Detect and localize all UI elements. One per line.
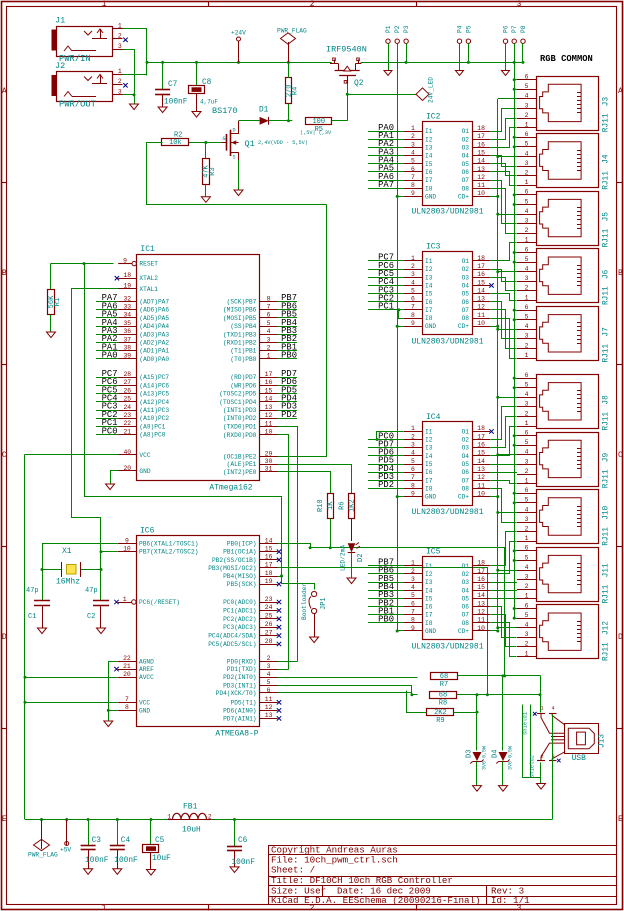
svg-text:6: 6: [525, 246, 529, 253]
svg-text:(AD3)PA3: (AD3)PA3: [139, 331, 169, 338]
svg-text:I3: I3: [425, 274, 433, 281]
svg-text:I5: I5: [425, 291, 433, 298]
svg-text:68: 68: [439, 692, 447, 700]
svg-text:19: 19: [265, 578, 273, 585]
svg-text:A: A: [2, 87, 7, 96]
svg-text:(TXD0)PD1: (TXD0)PD1: [223, 424, 257, 431]
svg-text:D4: D4: [492, 750, 500, 758]
svg-text:PWR_FLAG: PWR_FLAG: [28, 852, 58, 859]
svg-text:R5: R5: [315, 126, 323, 134]
svg-text:23: 23: [123, 412, 131, 419]
svg-text:5: 5: [267, 320, 271, 327]
svg-text:RJ11: RJ11: [603, 584, 611, 603]
svg-text:1: 1: [525, 593, 529, 600]
svg-text:14: 14: [477, 592, 485, 599]
svg-text:9: 9: [125, 537, 129, 544]
svg-text:PB1(OC1A): PB1(OC1A): [223, 549, 256, 556]
svg-text:9: 9: [123, 257, 127, 264]
svg-text:1: 1: [102, 0, 107, 9]
svg-text:1: 1: [411, 560, 415, 567]
svg-text:PC5(ADC5/SCL): PC5(ADC5/SCL): [208, 641, 256, 648]
svg-text:1: 1: [525, 650, 529, 657]
svg-text:RJ11: RJ11: [603, 286, 611, 305]
svg-text:2: 2: [411, 263, 415, 270]
svg-text:3: 3: [525, 574, 529, 581]
svg-text:4: 4: [525, 506, 529, 513]
svg-text:4: 4: [267, 328, 271, 335]
svg-text:5: 5: [525, 382, 529, 389]
svg-text:24: 24: [265, 604, 273, 611]
svg-text:D1: D1: [259, 107, 269, 115]
svg-text:11: 11: [265, 420, 273, 427]
svg-text:(RD)PD7: (RD)PD7: [230, 374, 256, 381]
svg-text:10uF: 10uF: [152, 855, 171, 863]
svg-text:15: 15: [477, 584, 485, 591]
svg-text:18: 18: [123, 272, 131, 279]
svg-text:P2: P2: [394, 25, 401, 33]
svg-text:6: 6: [411, 166, 415, 173]
svg-text:USB: USB: [572, 754, 587, 763]
svg-text:5: 5: [525, 497, 529, 504]
svg-text:PWR_FLAG: PWR_FLAG: [277, 28, 307, 35]
svg-text:O1: O1: [462, 428, 470, 435]
svg-text:O7: O7: [462, 612, 470, 619]
svg-text:I8: I8: [425, 620, 433, 627]
svg-text:100nF: 100nF: [114, 857, 138, 865]
svg-text:I6: I6: [425, 469, 433, 476]
svg-text:PA0: PA0: [102, 351, 118, 361]
svg-text:8: 8: [411, 182, 415, 189]
svg-text:PB3(MOSI/OC2): PB3(MOSI/OC2): [208, 565, 256, 572]
svg-text:P6: P6: [503, 25, 510, 33]
svg-text:2: 2: [310, 0, 315, 9]
svg-text:7: 7: [125, 696, 129, 703]
svg-text:C: C: [2, 451, 7, 460]
svg-text:8: 8: [411, 617, 415, 624]
svg-text:O5: O5: [462, 595, 470, 602]
svg-text:J13: J13: [599, 734, 607, 748]
svg-text:RGB COMMON: RGB COMMON: [540, 54, 593, 64]
svg-text:1: 1: [102, 904, 107, 911]
svg-text:I8: I8: [425, 185, 433, 192]
svg-text:R9: R9: [436, 717, 444, 725]
svg-text:IRF9540N: IRF9540N: [326, 45, 367, 55]
svg-text:7: 7: [411, 174, 415, 181]
svg-text:9: 9: [411, 490, 415, 497]
svg-text:6: 6: [525, 131, 529, 138]
svg-text:16: 16: [265, 554, 273, 561]
svg-text:(A12)PC4: (A12)PC4: [139, 399, 169, 406]
svg-text:J12: J12: [603, 621, 611, 635]
svg-text:(TOSC2)PD5: (TOSC2)PD5: [219, 391, 256, 398]
svg-text:PC6(/RESET): PC6(/RESET): [139, 599, 180, 606]
svg-text:(RXD0)PD0: (RXD0)PD0: [223, 432, 257, 439]
svg-text:100: 100: [312, 118, 325, 126]
svg-text:11: 11: [477, 182, 485, 189]
svg-text:1: 1: [525, 420, 529, 427]
svg-text:ULN2803/UDN2981: ULN2803/UDN2981: [411, 338, 483, 347]
svg-text:PC4(ADC4/SDA): PC4(ADC4/SDA): [208, 633, 256, 640]
svg-text:Title: DF10CH 10ch RGB Contro: Title: DF10CH 10ch RGB Controller: [271, 875, 453, 886]
svg-text:2: 2: [267, 655, 271, 662]
svg-text:R3: R3: [209, 167, 217, 175]
svg-text:O6: O6: [462, 299, 470, 306]
svg-text:(AD0)PA0: (AD0)PA0: [139, 356, 169, 363]
svg-text:(T1)PB1: (T1)PB1: [230, 348, 256, 355]
svg-text:16: 16: [477, 271, 485, 278]
svg-text:20: 20: [123, 671, 131, 678]
svg-text:4: 4: [525, 323, 529, 330]
svg-text:IC5: IC5: [426, 547, 441, 556]
svg-text:PB2(SS/OC1B): PB2(SS/OC1B): [212, 557, 257, 564]
svg-text:O6: O6: [462, 169, 470, 176]
svg-text:(TXD1)PB3: (TXD1)PB3: [223, 331, 257, 338]
svg-text:O8: O8: [462, 315, 470, 322]
svg-text:(OC1B)PE2: (OC1B)PE2: [223, 454, 257, 461]
svg-text:5: 5: [525, 256, 529, 263]
svg-text:2: 2: [525, 410, 529, 417]
svg-text:68: 68: [440, 673, 448, 681]
svg-text:12: 12: [477, 609, 485, 616]
svg-text:O4: O4: [462, 282, 470, 289]
svg-text:D: D: [618, 633, 623, 642]
svg-text:9: 9: [411, 320, 415, 327]
svg-text:I7: I7: [425, 477, 433, 484]
svg-text:+24V: +24V: [231, 30, 246, 37]
svg-text:RJ11: RJ11: [603, 344, 611, 363]
svg-text:RJ11: RJ11: [603, 642, 611, 661]
svg-text:D: D: [233, 128, 236, 134]
svg-text:(RXD1)PB2: (RXD1)PB2: [223, 340, 257, 347]
svg-text:C4: C4: [121, 837, 131, 845]
svg-text:100nF: 100nF: [232, 859, 256, 867]
svg-text:IC6: IC6: [140, 527, 155, 536]
svg-text:PC0(ADC0): PC0(ADC0): [223, 599, 256, 606]
svg-text:B: B: [2, 269, 7, 278]
svg-text:PD4(XCK/T0): PD4(XCK/T0): [216, 690, 257, 697]
svg-text:3: 3: [267, 336, 271, 343]
svg-text:(AD2)PA2: (AD2)PA2: [139, 340, 169, 347]
svg-text:RJ11: RJ11: [603, 171, 611, 190]
svg-text:18: 18: [265, 570, 273, 577]
svg-text:R2: R2: [174, 132, 182, 140]
svg-text:C: C: [618, 451, 623, 460]
svg-text:PB7(XTAL2/TOSC2): PB7(XTAL2/TOSC2): [139, 549, 198, 556]
svg-text:6: 6: [525, 304, 529, 311]
svg-text:ATmega162: ATmega162: [209, 484, 252, 493]
svg-text:16: 16: [477, 442, 485, 449]
svg-text:6: 6: [267, 687, 271, 694]
svg-text:6: 6: [525, 602, 529, 609]
svg-text:14: 14: [477, 158, 485, 165]
svg-text:O5: O5: [462, 461, 470, 468]
svg-text:12: 12: [265, 412, 273, 419]
svg-text:18: 18: [477, 125, 485, 132]
svg-text:C1: C1: [28, 613, 36, 621]
svg-text:PD0(RXD): PD0(RXD): [227, 658, 257, 665]
svg-text:1: 1: [525, 179, 529, 186]
svg-text:CD+: CD+: [458, 193, 469, 200]
svg-text:4: 4: [525, 391, 529, 398]
svg-text:35: 35: [123, 320, 131, 327]
svg-text:14: 14: [265, 396, 273, 403]
svg-text:J2: J2: [55, 61, 65, 71]
svg-text:XTAL2: XTAL2: [139, 275, 158, 282]
svg-text:VCC: VCC: [139, 699, 150, 706]
svg-text:1: 1: [411, 255, 415, 262]
svg-text:3: 3: [411, 442, 415, 449]
svg-text:2: 2: [525, 641, 529, 648]
svg-text:3V6 0,5W: 3V6 0,5W: [508, 746, 514, 770]
svg-text:AGND: AGND: [139, 658, 154, 665]
svg-text:3: 3: [267, 663, 271, 670]
svg-text:GND: GND: [139, 707, 150, 714]
svg-text:3: 3: [411, 576, 415, 583]
svg-text:23: 23: [265, 596, 273, 603]
svg-text:13: 13: [477, 466, 485, 473]
svg-text:28: 28: [123, 371, 131, 378]
svg-text:5: 5: [411, 458, 415, 465]
svg-text:PD2: PD2: [378, 480, 394, 490]
svg-text:9: 9: [411, 625, 415, 632]
svg-text:2K2: 2K2: [434, 709, 447, 717]
svg-text:XTAL1: XTAL1: [139, 286, 158, 293]
svg-text:O5: O5: [462, 291, 470, 298]
svg-text:6: 6: [411, 296, 415, 303]
svg-text:ULN2803/UDN2981: ULN2803/UDN2981: [411, 208, 483, 217]
svg-text:4: 4: [411, 279, 415, 286]
svg-text:I6: I6: [425, 299, 433, 306]
svg-text:I5: I5: [425, 161, 433, 168]
svg-text:15: 15: [477, 149, 485, 156]
svg-text:1: 1: [118, 23, 122, 30]
svg-text:(TOSC1)PD4: (TOSC1)PD4: [219, 399, 256, 406]
svg-text:7: 7: [411, 609, 415, 616]
svg-text:I2: I2: [425, 136, 433, 143]
svg-text:RJ11: RJ11: [603, 228, 611, 247]
svg-text:1: 1: [118, 68, 122, 75]
svg-text:6: 6: [525, 189, 529, 196]
svg-text:5: 5: [525, 198, 529, 205]
svg-text:I3: I3: [425, 145, 433, 152]
svg-text:3: 3: [525, 631, 529, 638]
svg-text:1: 1: [525, 237, 529, 244]
svg-text:3: 3: [517, 0, 522, 9]
svg-text:I6: I6: [425, 604, 433, 611]
svg-text:4: 4: [525, 564, 529, 571]
svg-text:PB6(XTAL1/TOSC1): PB6(XTAL1/TOSC1): [139, 541, 198, 548]
svg-text:D2: D2: [357, 554, 365, 562]
svg-text:1: 1: [525, 352, 529, 359]
svg-text:O8: O8: [462, 620, 470, 627]
svg-text:34: 34: [123, 312, 131, 319]
svg-text:R8: R8: [439, 700, 447, 708]
svg-text:BS170: BS170: [212, 106, 238, 116]
svg-text:4: 4: [411, 584, 415, 591]
svg-text:17: 17: [477, 433, 485, 440]
svg-text:C3: C3: [92, 837, 102, 845]
svg-text:P1: P1: [385, 25, 392, 33]
svg-text:22: 22: [123, 655, 131, 662]
svg-text:6: 6: [411, 466, 415, 473]
svg-text:(WR)PD6: (WR)PD6: [230, 382, 256, 389]
svg-text:17: 17: [477, 568, 485, 575]
svg-text:Shield2: Shield2: [529, 755, 536, 778]
svg-text:GND: GND: [139, 468, 150, 475]
svg-text:1: 1: [411, 425, 415, 432]
svg-text:C8: C8: [202, 79, 212, 87]
svg-text:17: 17: [477, 133, 485, 140]
svg-text:6: 6: [525, 372, 529, 379]
svg-text:47p: 47p: [26, 587, 39, 595]
svg-text:33: 33: [123, 304, 131, 311]
svg-text:17: 17: [265, 562, 273, 569]
svg-text:PD1(TXD): PD1(TXD): [227, 666, 257, 673]
svg-text:(MISO)PB6: (MISO)PB6: [223, 307, 257, 314]
svg-text:4: 4: [525, 93, 529, 100]
svg-text:R7: R7: [440, 681, 448, 689]
svg-text:Shield1: Shield1: [521, 711, 528, 735]
svg-text:I7: I7: [425, 612, 433, 619]
svg-text:PC1: PC1: [378, 302, 394, 312]
svg-text:PD2: PD2: [281, 410, 297, 420]
svg-text:25: 25: [265, 613, 273, 620]
svg-text:CD+: CD+: [458, 494, 469, 501]
svg-text:1: 1: [167, 813, 171, 820]
svg-text:ULN2803/UDN2981: ULN2803/UDN2981: [411, 642, 483, 651]
svg-text:13: 13: [477, 600, 485, 607]
svg-text:I2: I2: [425, 437, 433, 444]
svg-text:P5: P5: [465, 25, 472, 33]
svg-text:5: 5: [525, 141, 529, 148]
svg-text:11: 11: [477, 617, 485, 624]
svg-text:O8: O8: [462, 185, 470, 192]
svg-text:(INT1)PD3: (INT1)PD3: [223, 407, 257, 414]
svg-text:5: 5: [525, 554, 529, 561]
svg-text:PC1(ADC1): PC1(ADC1): [223, 607, 256, 614]
svg-text:O2: O2: [462, 266, 470, 273]
svg-text:2: 2: [525, 112, 529, 119]
svg-text:3: 3: [525, 516, 529, 523]
svg-text:PD2(INT0): PD2(INT0): [223, 674, 256, 681]
svg-text:6: 6: [267, 312, 271, 319]
svg-text:PB0: PB0: [378, 615, 394, 625]
svg-text:1K: 1K: [327, 501, 335, 510]
svg-text:4: 4: [411, 450, 415, 457]
svg-text:2,4V(VDD - 5,5V|: 2,4V(VDD - 5,5V|: [258, 140, 308, 146]
svg-text:27: 27: [265, 629, 273, 636]
svg-text:14: 14: [477, 287, 485, 294]
svg-text:PB0(ICP): PB0(ICP): [227, 541, 257, 548]
svg-text:3: 3: [411, 141, 415, 148]
svg-text:2: 2: [411, 568, 415, 575]
svg-text:20: 20: [123, 465, 131, 472]
svg-text:C2: C2: [87, 613, 95, 621]
svg-text:O4: O4: [462, 453, 470, 460]
svg-text:6: 6: [525, 487, 529, 494]
svg-text:3: 3: [118, 89, 122, 96]
svg-text:S: S: [233, 155, 236, 161]
svg-text:Bootloader: Bootloader: [301, 583, 308, 620]
svg-text:PA7: PA7: [378, 180, 394, 190]
svg-text:+5V: +5V: [60, 847, 71, 854]
svg-text:24V_LED: 24V_LED: [428, 77, 435, 103]
svg-text:O7: O7: [462, 477, 470, 484]
svg-text:26: 26: [265, 621, 273, 628]
svg-text:27: 27: [123, 379, 131, 386]
svg-text:16: 16: [477, 141, 485, 148]
svg-text:16Mhz: 16Mhz: [56, 578, 80, 587]
svg-text:O2: O2: [462, 437, 470, 444]
svg-text:I8: I8: [425, 485, 433, 492]
svg-text:(AD6)PA6: (AD6)PA6: [139, 307, 169, 314]
svg-text:R1: R1: [54, 298, 62, 306]
svg-text:31: 31: [265, 466, 273, 473]
svg-text:6: 6: [525, 545, 529, 552]
svg-text:10: 10: [477, 490, 485, 497]
svg-text:8: 8: [267, 295, 271, 302]
svg-text:13: 13: [265, 712, 273, 719]
svg-text:O3: O3: [462, 579, 470, 586]
svg-text:(AD1)PA1: (AD1)PA1: [139, 348, 169, 355]
svg-text:30: 30: [265, 458, 273, 465]
svg-text:PD6(AIN0): PD6(AIN0): [223, 707, 256, 714]
svg-text:1: 1: [525, 535, 529, 542]
svg-text:I4: I4: [425, 153, 433, 160]
svg-text:RJ11: RJ11: [603, 469, 611, 488]
svg-text:(AD7)PA7: (AD7)PA7: [139, 299, 169, 306]
svg-text:P3: P3: [403, 25, 410, 33]
svg-text:3: 3: [118, 43, 122, 50]
svg-text:D3: D3: [466, 750, 474, 758]
svg-text:J8: J8: [603, 395, 611, 405]
svg-text:J1: J1: [55, 16, 65, 26]
svg-text:I4: I4: [425, 282, 433, 289]
svg-text:10: 10: [123, 546, 131, 553]
svg-text:2: 2: [267, 345, 271, 352]
svg-text:(A9)PC1: (A9)PC1: [139, 423, 165, 430]
svg-text:I3: I3: [425, 579, 433, 586]
svg-text:5: 5: [267, 679, 271, 686]
svg-text:(T0)PB0: (T0)PB0: [230, 356, 256, 363]
svg-text:I2: I2: [425, 571, 433, 578]
svg-text:10k: 10k: [169, 139, 182, 147]
svg-text:2: 2: [525, 342, 529, 349]
svg-text:8: 8: [411, 482, 415, 489]
svg-text:38: 38: [123, 345, 131, 352]
svg-text:O1: O1: [462, 563, 470, 570]
svg-text:15: 15: [477, 450, 485, 457]
svg-text:37: 37: [123, 336, 131, 343]
svg-text:PB4(MISO): PB4(MISO): [223, 573, 256, 580]
svg-text:18: 18: [477, 425, 485, 432]
svg-text:10: 10: [477, 190, 485, 197]
svg-text:P7: P7: [511, 25, 518, 33]
svg-text:I5: I5: [425, 461, 433, 468]
svg-text:5: 5: [411, 287, 415, 294]
svg-text:5: 5: [525, 439, 529, 446]
svg-text:J3: J3: [603, 97, 611, 107]
svg-text:6: 6: [525, 430, 529, 437]
svg-text:J10: J10: [603, 505, 611, 519]
svg-text:5: 5: [525, 83, 529, 90]
svg-text:I4: I4: [425, 587, 433, 594]
svg-text:IC2: IC2: [426, 113, 441, 122]
svg-text:PB0: PB0: [281, 351, 297, 361]
svg-text:R4: R4: [292, 87, 300, 95]
svg-text:AVCC: AVCC: [139, 674, 154, 681]
svg-text:Id: 1/1: Id: 1/1: [491, 895, 530, 906]
